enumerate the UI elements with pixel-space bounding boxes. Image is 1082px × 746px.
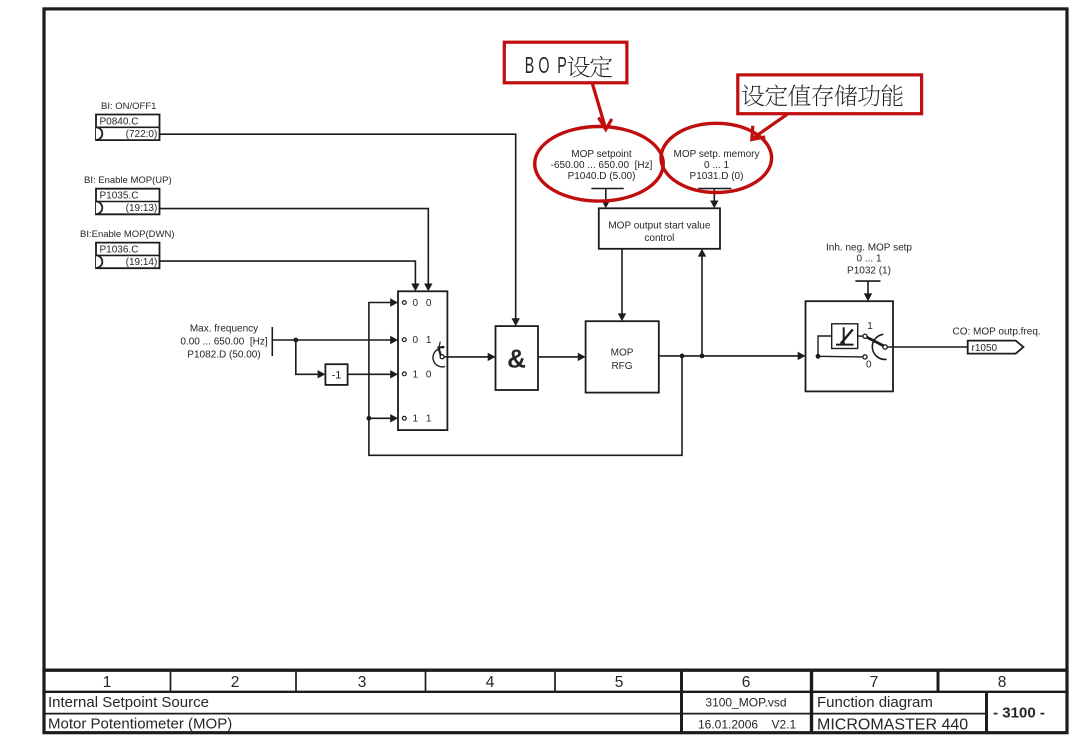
svg-text:BI: ON/OFF1: BI: ON/OFF1 <box>101 101 156 112</box>
footer column divider 7/8 <box>937 670 940 692</box>
binector input P1036.C <box>96 243 160 269</box>
svg-text:MOP output start value: MOP output start value <box>608 221 711 232</box>
footer column divider 5/6 <box>680 670 683 733</box>
wire switch output to r1050 <box>887 346 967 348</box>
red callout box BOP setting <box>504 42 627 83</box>
connector output r1050 <box>968 341 1024 354</box>
svg-text:- 3100 -: - 3100 - <box>993 704 1045 721</box>
parameter terminal P1031 <box>698 188 731 190</box>
svg-text:1: 1 <box>867 321 873 332</box>
wire limiter to contact 1 <box>858 335 863 337</box>
svg-text:3: 3 <box>358 674 367 691</box>
svg-text:BI: Enable MOP(UP): BI: Enable MOP(UP) <box>84 175 172 186</box>
wire junction down to -1 block <box>296 340 318 374</box>
svg-text:MOP: MOP <box>611 348 634 359</box>
block inhibit negative MOP setpoint switch <box>806 301 894 391</box>
svg-text:MICROMASTER 440: MICROMASTER 440 <box>817 717 968 734</box>
svg-text:Function diagram: Function diagram <box>817 694 933 711</box>
svg-text:&: & <box>507 344 526 374</box>
footer column divider 1/2 <box>170 671 172 692</box>
svg-text:P1082.D (50.00): P1082.D (50.00) <box>187 349 260 360</box>
selector input pin 1 1 <box>402 416 406 420</box>
text CJK BOP she ding <box>568 56 590 78</box>
selector rotary contact <box>440 355 444 359</box>
wire P1082 to selector input 0 1 <box>272 339 390 341</box>
svg-text:P1031.D (0): P1031.D (0) <box>690 171 744 182</box>
footer line under column numbers <box>42 691 1068 693</box>
svg-text:5: 5 <box>615 674 624 691</box>
svg-text:P1036.C: P1036.C <box>100 245 139 256</box>
wire junction to contact 0 <box>818 355 863 358</box>
footer column divider 6/7 <box>810 670 813 733</box>
switch contact 0 <box>863 355 867 359</box>
footer column divider 2/3 <box>295 671 297 692</box>
wire -1 block to selector input 1 0 <box>348 373 391 375</box>
svg-text:0 ... 1: 0 ... 1 <box>856 253 881 264</box>
switch travel arc <box>872 334 886 359</box>
svg-text:-650.00 ... 650.00 [Hz]: -650.00 ... 650.00 [Hz] <box>551 160 653 171</box>
red callout box setpoint memory <box>738 75 922 114</box>
svg-text:0 1: 0 1 <box>413 335 434 346</box>
svg-text:r1050: r1050 <box>972 343 998 354</box>
svg-text:0 ... 1: 0 ... 1 <box>704 160 729 171</box>
parameter terminal P1040 <box>591 188 623 190</box>
block MOP output start value control <box>599 208 720 249</box>
AND gate & <box>496 326 539 390</box>
selector switch block <box>398 291 447 430</box>
svg-text:(19:14): (19:14) <box>126 257 158 268</box>
binector input P0840.C <box>96 115 160 141</box>
junction node to control <box>700 354 705 359</box>
wire AND gate to MOP RFG <box>538 356 578 358</box>
svg-text:1 1: 1 1 <box>413 414 434 425</box>
footer divider left of sheet number cell <box>985 692 988 733</box>
wire selector output to AND gate <box>444 356 488 358</box>
red arrow from memory box to ellipse <box>754 114 787 137</box>
svg-text:V2.1: V2.1 <box>772 718 797 732</box>
svg-text:MOP setp. memory: MOP setp. memory <box>674 149 760 160</box>
svg-text:16.01.2006: 16.01.2006 <box>698 718 758 732</box>
svg-text:P: P <box>557 54 567 79</box>
binector input P1035.C <box>96 189 160 215</box>
wire to limiter <box>818 336 832 356</box>
red ellipse around MOP setpoint <box>535 127 664 202</box>
svg-text:8: 8 <box>998 674 1007 691</box>
svg-text:(722:0): (722:0) <box>126 129 158 140</box>
footer table top line <box>42 669 1068 672</box>
red arrow from BOP box to ellipse <box>593 84 606 127</box>
svg-text:Max. frequency: Max. frequency <box>190 324 258 335</box>
svg-text:RFG: RFG <box>611 361 632 372</box>
svg-text:P1032 (1): P1032 (1) <box>847 265 891 276</box>
svg-text:(19:13): (19:13) <box>126 203 158 214</box>
svg-text:6: 6 <box>742 674 751 691</box>
svg-text:BI:Enable MOP(DWN): BI:Enable MOP(DWN) <box>80 229 175 240</box>
inverter block -1 <box>325 364 347 385</box>
svg-text:P1035.C: P1035.C <box>100 191 139 202</box>
svg-text:0 0: 0 0 <box>413 298 434 309</box>
selector input pin 0 0 <box>402 301 406 305</box>
selector input pin 0 1 <box>402 338 406 342</box>
svg-text:O: O <box>538 54 549 79</box>
svg-text:Internal Setpoint Source: Internal Setpoint Source <box>48 694 209 711</box>
svg-text:CO: MOP outp.freq.: CO: MOP outp.freq. <box>953 327 1041 338</box>
red ellipse around MOP setp. memory <box>661 123 772 192</box>
svg-text:B: B <box>525 54 535 79</box>
selector input pin 1 0 <box>402 372 406 376</box>
wire feedback to selector input 1 1 <box>369 417 391 419</box>
switch lever <box>867 337 884 345</box>
footer column divider 3/4 <box>425 671 427 692</box>
wire output up to control block <box>701 256 703 356</box>
text CJK setpoint storage function <box>742 85 764 107</box>
svg-text:7: 7 <box>870 674 879 691</box>
svg-text:0.00 ... 650.00 [Hz]: 0.00 ... 650.00 [Hz] <box>180 336 267 347</box>
svg-text:1: 1 <box>103 674 112 691</box>
wire Enable MOP(UP) to selector <box>160 209 429 284</box>
switch common contact <box>883 345 887 349</box>
wire ON/OFF1 to AND gate <box>160 134 516 318</box>
svg-text:-1: -1 <box>332 370 342 382</box>
svg-text:MOP setpoint: MOP setpoint <box>571 149 632 160</box>
junction node feedback to 1 1 input <box>367 416 372 421</box>
wire feedback down and left <box>369 303 682 456</box>
svg-text:control: control <box>644 233 674 244</box>
limiter symbol box <box>832 324 858 349</box>
wire control block down to MOP RFG <box>621 249 623 314</box>
junction node feedback <box>680 354 685 359</box>
svg-text:4: 4 <box>486 674 495 691</box>
wire Enable MOP(DWN) to selector <box>160 261 416 284</box>
wire MOP RFG output to limiter switch block <box>659 355 798 357</box>
junction node inside switch block <box>816 354 821 359</box>
parameter bar P1082 <box>271 327 273 356</box>
svg-text:P0840.C: P0840.C <box>100 117 139 128</box>
svg-text:Inh. neg. MOP setp: Inh. neg. MOP setp <box>826 242 912 253</box>
svg-text:P1040.D (5.00): P1040.D (5.00) <box>568 171 636 182</box>
footer middle line <box>42 713 987 715</box>
junction node on P1082 wire <box>293 338 298 343</box>
svg-text:Motor Potentiometer (MOP): Motor Potentiometer (MOP) <box>48 716 232 733</box>
svg-text:3100_MOP.vsd: 3100_MOP.vsd <box>705 696 786 710</box>
svg-text:1 0: 1 0 <box>413 369 434 380</box>
footer column divider 4/5 <box>554 671 556 692</box>
switch contact 1 <box>863 334 867 338</box>
block MOP RFG <box>586 321 659 392</box>
svg-text:0: 0 <box>866 359 872 370</box>
svg-text:2: 2 <box>231 674 240 691</box>
parameter terminal P1032 <box>855 280 880 282</box>
